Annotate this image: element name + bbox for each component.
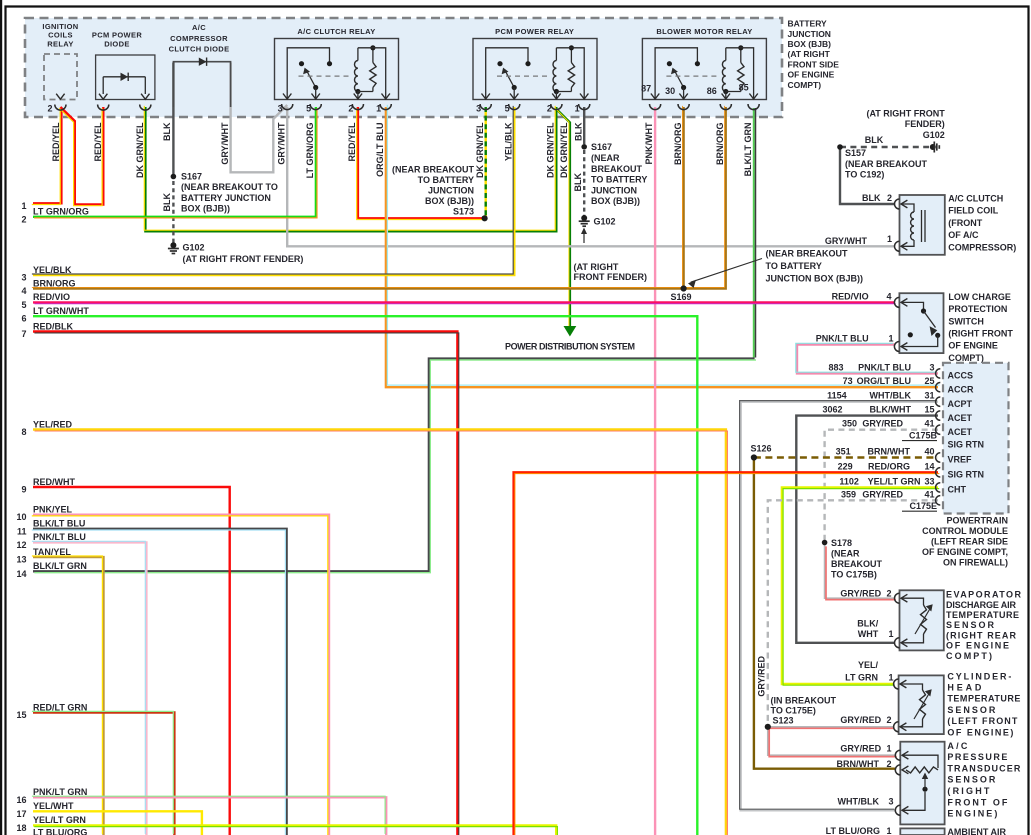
svg-text:TEMPERATURE: TEMPERATURE bbox=[947, 694, 1020, 704]
A/C clutch relay bbox=[275, 39, 399, 100]
svg-text:16: 16 bbox=[16, 795, 26, 805]
svg-text:A/C: A/C bbox=[947, 741, 968, 751]
wire: PNK/YEL row 10 down off page bbox=[33, 515, 329, 835]
svg-text:G102: G102 bbox=[923, 130, 945, 140]
svg-text:(IN BREAKOUT: (IN BREAKOUT bbox=[771, 695, 837, 705]
svg-text:YEL/LT GRN: YEL/LT GRN bbox=[868, 476, 921, 486]
svg-text:YEL/WHT: YEL/WHT bbox=[33, 801, 74, 811]
svg-text:ENGINE): ENGINE) bbox=[947, 809, 997, 819]
svg-text:1: 1 bbox=[888, 334, 893, 344]
svg-text:2: 2 bbox=[887, 193, 892, 203]
svg-text:3: 3 bbox=[278, 104, 283, 114]
wire: YEL/RED row 8 down off page bbox=[33, 430, 726, 835]
svg-text:C175E: C175E bbox=[909, 501, 937, 511]
svg-text:SIG RTN: SIG RTN bbox=[948, 470, 985, 480]
PCM power diode bbox=[96, 55, 155, 100]
wire: PNK/WHT blower relay pin 87 down off page bbox=[654, 107, 656, 835]
PCM pin row 3062 BLK/WHT pin 15 bbox=[936, 411, 941, 420]
svg-text:FIELD COIL: FIELD COIL bbox=[948, 206, 998, 216]
svg-text:13: 13 bbox=[16, 555, 26, 565]
svg-text:JUNCTION BOX (BJB)): JUNCTION BOX (BJB)) bbox=[766, 274, 864, 284]
svg-text:PNK/LT BLU: PNK/LT BLU bbox=[33, 532, 86, 542]
wire: YEL/BLK row 3 to PCM relay pin 5 bbox=[33, 107, 514, 275]
wire: YEL/LT GRN row 18 down off page bbox=[33, 825, 556, 835]
svg-text:HEAD: HEAD bbox=[947, 683, 982, 693]
svg-text:CYLINDER-: CYLINDER- bbox=[947, 671, 1011, 681]
svg-text:EVAPORATOR: EVAPORATOR bbox=[946, 590, 1022, 600]
svg-text:(NEAR: (NEAR bbox=[591, 153, 620, 163]
svg-text:ACET: ACET bbox=[948, 427, 973, 437]
svg-text:DISCHARGE AIR: DISCHARGE AIR bbox=[946, 600, 1017, 610]
wire: RED/YEL row 1 from ignition relay pin 2 bbox=[33, 108, 61, 203]
svg-text:PNK/YEL: PNK/YEL bbox=[33, 505, 73, 515]
PCM pin row 229 RED/ORG pin 14 bbox=[936, 468, 941, 477]
svg-text:COMPT): COMPT) bbox=[788, 80, 822, 90]
PCM pin row 350 GRY/RED pin 41 bbox=[936, 425, 941, 434]
splice S169 bbox=[681, 285, 687, 291]
svg-text:15: 15 bbox=[924, 405, 934, 415]
wire: BRN/WHT dashed S126 to PCM VREF bbox=[754, 456, 938, 458]
cylinder head temperature sensor box bbox=[899, 675, 944, 734]
PCM power relay bbox=[473, 39, 597, 100]
svg-text:ACCS: ACCS bbox=[948, 371, 974, 381]
svg-text:(AT RIGHT FRONT FENDER): (AT RIGHT FRONT FENDER) bbox=[183, 254, 304, 264]
svg-text:1154: 1154 bbox=[827, 391, 847, 401]
svg-text:31: 31 bbox=[924, 391, 934, 401]
svg-text:A/C: A/C bbox=[192, 23, 206, 32]
svg-text:DK GRN/YEL: DK GRN/YEL bbox=[475, 122, 485, 178]
svg-text:5: 5 bbox=[306, 104, 311, 114]
svg-text:TRANSDUCER: TRANSDUCER bbox=[947, 763, 1021, 773]
svg-text:TO BATTERY: TO BATTERY bbox=[591, 175, 647, 185]
svg-text:LT BLU/ORG: LT BLU/ORG bbox=[33, 828, 87, 835]
svg-text:(NEAR BREAKOUT: (NEAR BREAKOUT bbox=[392, 164, 475, 174]
svg-text:YEL/RED: YEL/RED bbox=[33, 419, 73, 429]
svg-text:ON FIREWALL): ON FIREWALL) bbox=[943, 558, 1008, 568]
svg-text:2: 2 bbox=[348, 104, 353, 114]
splice S157 bbox=[837, 144, 843, 150]
svg-text:1102: 1102 bbox=[839, 476, 859, 486]
wire: PNK/LT BLU switch pin 1 to PCM ACCS bbox=[797, 345, 938, 374]
svg-text:1: 1 bbox=[21, 201, 26, 211]
svg-text:GRY/RED: GRY/RED bbox=[757, 656, 767, 697]
svg-text:OF ENGINE: OF ENGINE bbox=[788, 70, 835, 80]
svg-text:SENSOR: SENSOR bbox=[947, 705, 996, 715]
svg-text:JUNCTION: JUNCTION bbox=[591, 185, 637, 195]
svg-text:1: 1 bbox=[887, 234, 892, 244]
svg-text:229: 229 bbox=[838, 461, 853, 471]
svg-text:BOX (BJB)): BOX (BJB)) bbox=[591, 196, 640, 206]
svg-text:RED/LT GRN: RED/LT GRN bbox=[33, 702, 87, 712]
svg-text:4: 4 bbox=[21, 286, 26, 296]
svg-text:CLUTCH DIODE: CLUTCH DIODE bbox=[169, 45, 230, 54]
wire: DK GRN/YEL diagonal from PCM relay pin 2 to power distribution arrow bbox=[556, 109, 570, 327]
svg-text:OF ENGINE: OF ENGINE bbox=[946, 641, 1009, 651]
svg-text:4: 4 bbox=[886, 291, 891, 301]
svg-text:2: 2 bbox=[886, 715, 891, 725]
svg-text:YEL/BLK: YEL/BLK bbox=[504, 122, 514, 161]
wire: RED/YEL A/C clutch relay pin 2 to S173 bbox=[358, 107, 485, 218]
svg-text:(NEAR: (NEAR bbox=[831, 549, 860, 559]
PCM pin row 73 ORG/LT BLU pin 25 bbox=[936, 383, 941, 392]
wire: BLK S157 to G102c (dashed) bbox=[840, 146, 929, 148]
svg-text:LT GRN/WHT: LT GRN/WHT bbox=[33, 306, 89, 316]
svg-text:S167: S167 bbox=[591, 142, 612, 152]
wire: LT GRN/WHT row 6 down off page bbox=[33, 316, 697, 835]
svg-text:GRY/RED: GRY/RED bbox=[840, 589, 881, 599]
svg-text:BLK: BLK bbox=[865, 135, 884, 145]
svg-text:ACCR: ACCR bbox=[948, 384, 974, 394]
svg-text:IGNITION: IGNITION bbox=[42, 22, 78, 31]
svg-text:PCM POWER RELAY: PCM POWER RELAY bbox=[495, 27, 574, 36]
wire: GRY/WHT A/C clutch relay pin 3 to A/C clutch field coil pin 1 bbox=[287, 107, 894, 246]
wire: DK GRN/YEL PCM diode to PCM power relay pin 2 bbox=[145, 107, 556, 231]
svg-text:15: 15 bbox=[16, 710, 26, 720]
wire: BLK PCM relay pin 1 to S167b and G102b bbox=[583, 107, 585, 144]
svg-text:TEMPERATURE: TEMPERATURE bbox=[946, 610, 1019, 620]
svg-text:CHT: CHT bbox=[948, 485, 967, 495]
svg-text:WHT: WHT bbox=[858, 629, 879, 639]
svg-text:BLK: BLK bbox=[862, 193, 881, 203]
wire: PNK/LT BLU row 12 down off page bbox=[33, 542, 146, 835]
svg-text:DIODE: DIODE bbox=[104, 39, 130, 48]
svg-text:BLK: BLK bbox=[573, 173, 583, 192]
PCM pin row 351 BRN/WHT pin 40 bbox=[936, 453, 941, 462]
splice S167 (PCM relay pin1) bbox=[581, 144, 587, 150]
svg-text:TO C192): TO C192) bbox=[845, 170, 884, 180]
wire: GRY/RED dashed PCM pin41 to S123 (C175E) bbox=[768, 500, 938, 724]
svg-text:BREAKOUT: BREAKOUT bbox=[831, 559, 883, 569]
svg-text:RED/YEL: RED/YEL bbox=[93, 122, 103, 162]
ground G102 (clutch diode) bbox=[170, 242, 176, 248]
svg-text:73: 73 bbox=[843, 376, 853, 386]
svg-text:S173: S173 bbox=[453, 207, 474, 217]
svg-text:TO BATTERY: TO BATTERY bbox=[418, 175, 474, 185]
svg-text:YEL/: YEL/ bbox=[858, 660, 879, 670]
svg-text:(AT RIGHT: (AT RIGHT bbox=[788, 49, 831, 59]
ignition coils relay (dashed box) bbox=[44, 54, 77, 100]
ground G102 (right front fender) bbox=[930, 144, 936, 150]
svg-text:BOX (BJB)): BOX (BJB)) bbox=[181, 203, 230, 213]
svg-text:RED/WHT: RED/WHT bbox=[33, 477, 75, 487]
svg-text:3062: 3062 bbox=[822, 405, 842, 415]
svg-text:WHT/BLK: WHT/BLK bbox=[870, 391, 912, 401]
svg-text:SIG RTN: SIG RTN bbox=[948, 440, 985, 450]
PCM pin row 1154 WHT/BLK pin 31 bbox=[936, 397, 941, 406]
svg-text:(NEAR BREAKOUT: (NEAR BREAKOUT bbox=[766, 249, 849, 259]
svg-text:BLK: BLK bbox=[574, 122, 584, 141]
svg-text:OF ENGINE COMPT,: OF ENGINE COMPT, bbox=[922, 547, 1008, 557]
svg-text:G102: G102 bbox=[594, 216, 616, 226]
svg-text:(RIGHT REAR: (RIGHT REAR bbox=[946, 630, 1017, 640]
svg-text:BRN/WHT: BRN/WHT bbox=[868, 447, 911, 457]
wire: TAN/YEL row 13 down off page bbox=[33, 557, 104, 835]
svg-text:BLK/LT GRN: BLK/LT GRN bbox=[33, 561, 87, 571]
svg-text:12: 12 bbox=[16, 540, 26, 550]
svg-text:(AT RIGHT FRONT: (AT RIGHT FRONT bbox=[866, 108, 945, 118]
svg-text:2: 2 bbox=[21, 214, 26, 224]
svg-text:LT GRN/ORG: LT GRN/ORG bbox=[33, 207, 89, 217]
svg-text:10: 10 bbox=[16, 512, 26, 522]
svg-text:6: 6 bbox=[21, 314, 26, 324]
svg-text:DK GRN/YEL: DK GRN/YEL bbox=[135, 122, 145, 178]
svg-text:BLK/LT GRN: BLK/LT GRN bbox=[743, 123, 753, 177]
svg-text:RED/YEL: RED/YEL bbox=[51, 122, 61, 162]
A/C clutch field coil box bbox=[900, 195, 945, 255]
wire: LT GRN/ORG row 2 to A/C clutch relay pin 5 bbox=[33, 107, 316, 217]
svg-text:RED/VIO: RED/VIO bbox=[832, 291, 869, 301]
wire: BLK/LT GRN blower pin 85 vertical bbox=[753, 108, 755, 358]
svg-text:BLK: BLK bbox=[162, 193, 172, 212]
svg-text:PNK/LT GRN: PNK/LT GRN bbox=[33, 787, 87, 797]
svg-text:POWERTRAIN: POWERTRAIN bbox=[947, 516, 1009, 526]
svg-text:BRN/ORG: BRN/ORG bbox=[715, 123, 725, 166]
svg-text:359: 359 bbox=[841, 489, 856, 499]
svg-text:7: 7 bbox=[21, 329, 26, 339]
svg-text:LT BLU/ORG: LT BLU/ORG bbox=[826, 826, 880, 835]
svg-text:ACPT: ACPT bbox=[948, 399, 973, 409]
svg-text:GRY/RED: GRY/RED bbox=[862, 419, 903, 429]
wire: GRY/RED dashed PCM pin41 to S178 (C175B) bbox=[825, 430, 938, 540]
wire: DK GRN/YEL dashed PCM relay pin 3 to S173 bbox=[485, 107, 487, 216]
svg-text:(FRONT: (FRONT bbox=[948, 218, 982, 228]
wire: RED/WHT row 9 down off page bbox=[33, 487, 230, 835]
svg-text:3: 3 bbox=[888, 797, 893, 807]
blower motor relay bbox=[642, 39, 766, 100]
svg-text:RELAY: RELAY bbox=[47, 39, 73, 48]
PCM pin row 359 GRY/RED pin 41 bbox=[936, 496, 941, 505]
svg-text:BLOWER MOTOR RELAY: BLOWER MOTOR RELAY bbox=[656, 27, 752, 36]
svg-text:CONTROL MODULE: CONTROL MODULE bbox=[922, 526, 1008, 536]
svg-text:OF A/C: OF A/C bbox=[948, 230, 979, 240]
svg-text:COMPRESSOR): COMPRESSOR) bbox=[948, 242, 1016, 252]
svg-text:41: 41 bbox=[924, 419, 934, 429]
svg-text:RED/VIO: RED/VIO bbox=[33, 292, 70, 302]
svg-text:BLK/: BLK/ bbox=[857, 618, 878, 628]
svg-text:S126: S126 bbox=[751, 443, 772, 453]
svg-text:14: 14 bbox=[16, 569, 26, 579]
svg-text:OF ENGINE: OF ENGINE bbox=[948, 341, 998, 351]
svg-text:YEL/LT GRN: YEL/LT GRN bbox=[33, 815, 86, 825]
svg-text:BRN/ORG: BRN/ORG bbox=[33, 278, 76, 288]
svg-text:FRONT OF: FRONT OF bbox=[947, 797, 1008, 807]
svg-text:(RIGHT: (RIGHT bbox=[947, 786, 990, 796]
svg-text:8: 8 bbox=[21, 427, 26, 437]
svg-text:PNK/LT BLU: PNK/LT BLU bbox=[816, 334, 869, 344]
A/C compressor clutch diode bbox=[173, 62, 230, 107]
wire: WHT/BLK PCM ACPT to A/C pressure transducer pin 3 bbox=[741, 402, 938, 811]
A/C pressure transducer sensor box bbox=[900, 742, 944, 825]
svg-text:2: 2 bbox=[886, 589, 891, 599]
splice S173 bbox=[482, 215, 488, 221]
wire: BRN/ORG row 4 to S169 bbox=[33, 287, 684, 289]
svg-text:1: 1 bbox=[886, 743, 891, 753]
wire: BRN/WHT S126 to A/C pressure transducer pin 2 bbox=[754, 458, 895, 769]
svg-text:TO BATTERY: TO BATTERY bbox=[766, 261, 822, 271]
svg-text:87: 87 bbox=[641, 84, 651, 94]
svg-text:RED/BLK: RED/BLK bbox=[33, 321, 73, 331]
svg-text:BLK/WHT: BLK/WHT bbox=[870, 405, 912, 415]
svg-text:BOX (BJB)): BOX (BJB)) bbox=[425, 196, 474, 206]
svg-text:FRONT FENDER): FRONT FENDER) bbox=[574, 272, 648, 282]
svg-text:3: 3 bbox=[476, 104, 481, 114]
svg-text:FRONT SIDE: FRONT SIDE bbox=[788, 59, 840, 69]
wire: GRY/RED S123 to cylinder head temp pin 2 bbox=[768, 726, 894, 728]
svg-text:G102: G102 bbox=[183, 243, 205, 253]
svg-text:(NEAR BREAKOUT: (NEAR BREAKOUT bbox=[845, 159, 928, 169]
svg-text:2: 2 bbox=[547, 104, 552, 114]
PCM pin row 1102 YEL/LT GRN pin 33 bbox=[936, 483, 941, 492]
wire: RED/VIO row 5 to low charge protection switch pin 4 bbox=[33, 301, 894, 303]
svg-text:14: 14 bbox=[924, 461, 934, 471]
wire: RED/LT GRN row 15 down off page bbox=[33, 713, 174, 835]
svg-text:BRN/WHT: BRN/WHT bbox=[837, 759, 880, 769]
svg-text:17: 17 bbox=[16, 809, 26, 819]
svg-text:2: 2 bbox=[47, 104, 52, 114]
wire: RED/ORG PCM SIG RTN down off page bbox=[514, 472, 938, 835]
svg-text:JUNCTION: JUNCTION bbox=[428, 186, 474, 196]
svg-text:BATTERY JUNCTION: BATTERY JUNCTION bbox=[181, 193, 271, 203]
svg-text:TO C175E): TO C175E) bbox=[771, 706, 816, 716]
svg-text:AMBIENT AIR: AMBIENT AIR bbox=[947, 827, 1006, 835]
svg-text:5: 5 bbox=[21, 300, 26, 310]
svg-text:RED/ORG: RED/ORG bbox=[868, 461, 910, 471]
svg-text:11: 11 bbox=[17, 526, 27, 536]
svg-text:LT GRN: LT GRN bbox=[845, 673, 878, 683]
wire: RED/BLK row 7 down off page bbox=[33, 332, 457, 835]
svg-text:(NEAR BREAKOUT TO: (NEAR BREAKOUT TO bbox=[181, 182, 278, 192]
svg-text:GRY/RED: GRY/RED bbox=[862, 489, 903, 499]
svg-text:S169: S169 bbox=[671, 292, 692, 302]
wire: BLK/LT BLU row 11 down off page bbox=[33, 529, 287, 835]
svg-text:VREF: VREF bbox=[948, 455, 973, 465]
svg-text:BATTERY: BATTERY bbox=[788, 19, 828, 29]
svg-text:86: 86 bbox=[707, 86, 717, 96]
wire: BRN/ORG blower pin 30 to S169 bbox=[682, 107, 684, 289]
wire: GRY/RED S123 to A/C pressure transducer pin 1 bbox=[768, 727, 896, 755]
svg-text:33: 33 bbox=[924, 476, 934, 486]
wire: YEL/LT GRN PCM CHT to cylinder head temp sensor pin 1 bbox=[782, 487, 938, 684]
svg-text:(LEFT REAR SIDE: (LEFT REAR SIDE bbox=[931, 537, 1008, 547]
svg-text:(RIGHT FRONT: (RIGHT FRONT bbox=[948, 329, 1013, 339]
svg-text:350: 350 bbox=[842, 419, 857, 429]
svg-text:LT GRN/ORG: LT GRN/ORG bbox=[305, 123, 315, 179]
wire: RED/YEL ignition pin2 branch to PCM power diode pin bbox=[60, 107, 103, 205]
svg-text:40: 40 bbox=[924, 447, 934, 457]
svg-text:BOX (BJB): BOX (BJB) bbox=[788, 39, 832, 49]
svg-text:BRN/ORG: BRN/ORG bbox=[673, 123, 683, 166]
svg-text:ACET: ACET bbox=[948, 413, 973, 423]
splice S126 bbox=[751, 454, 757, 460]
svg-text:DK GRN/YEL: DK GRN/YEL bbox=[559, 122, 569, 178]
svg-text:PNK/LT BLU: PNK/LT BLU bbox=[858, 362, 911, 372]
page frame bbox=[0, 0, 2, 835]
svg-text:(LEFT FRONT: (LEFT FRONT bbox=[947, 716, 1018, 726]
svg-text:351: 351 bbox=[836, 447, 851, 457]
svg-text:LOW CHARGE: LOW CHARGE bbox=[948, 292, 1011, 302]
svg-text:TO C175B): TO C175B) bbox=[831, 569, 877, 579]
svg-text:3: 3 bbox=[21, 273, 26, 283]
svg-text:85: 85 bbox=[739, 83, 749, 93]
svg-text:S123: S123 bbox=[773, 716, 794, 726]
annotation arrow to G102 bbox=[583, 232, 585, 244]
svg-text:41: 41 bbox=[924, 489, 934, 499]
svg-text:883: 883 bbox=[828, 362, 843, 372]
svg-text:GRY/WHT: GRY/WHT bbox=[220, 122, 230, 165]
svg-text:1: 1 bbox=[575, 104, 580, 114]
svg-text:PNK/WHT: PNK/WHT bbox=[644, 122, 654, 164]
wire: GRY/RED S178 to evaporator pin 2 bbox=[825, 545, 895, 598]
svg-text:BLK/LT BLU: BLK/LT BLU bbox=[33, 519, 85, 529]
svg-text:FENDER): FENDER) bbox=[905, 119, 945, 129]
wire: BLK S157 to A/C clutch field coil pin 2 bbox=[840, 147, 895, 204]
svg-text:(AT RIGHT: (AT RIGHT bbox=[574, 262, 619, 272]
svg-text:GRY/RED: GRY/RED bbox=[840, 743, 881, 753]
svg-text:JUNCTION: JUNCTION bbox=[788, 29, 831, 39]
svg-text:BLK: BLK bbox=[162, 122, 172, 141]
svg-text:S178: S178 bbox=[831, 538, 852, 548]
wire: BRN/ORG blower pin 86 to S169 bbox=[684, 107, 726, 289]
wire: PNK/LT GRN row 16 down off page bbox=[33, 797, 386, 835]
svg-text:3: 3 bbox=[929, 362, 934, 372]
svg-text:SENSOR: SENSOR bbox=[946, 620, 995, 630]
svg-text:A/C CLUTCH RELAY: A/C CLUTCH RELAY bbox=[297, 27, 375, 36]
splice S178 bbox=[822, 540, 828, 546]
svg-text:1: 1 bbox=[886, 826, 891, 835]
svg-text:A/C CLUTCH: A/C CLUTCH bbox=[948, 194, 1003, 204]
wire: YEL/WHT row 17 down off page bbox=[33, 811, 202, 835]
svg-text:ORG/LT BLU: ORG/LT BLU bbox=[857, 376, 911, 386]
low charge protection switch box bbox=[899, 293, 943, 353]
svg-text:PCM POWER: PCM POWER bbox=[92, 31, 142, 40]
svg-text:S167: S167 bbox=[181, 171, 202, 181]
PCM pin row 883 PNK/LT BLU pin 3 bbox=[936, 369, 941, 378]
svg-text:C175B: C175B bbox=[909, 431, 938, 441]
svg-text:1: 1 bbox=[376, 104, 381, 114]
svg-text:COILS: COILS bbox=[48, 31, 73, 40]
svg-text:COMPRESSOR: COMPRESSOR bbox=[170, 34, 228, 43]
svg-text:S157: S157 bbox=[845, 148, 866, 158]
svg-text:BREAKOUT: BREAKOUT bbox=[591, 164, 643, 174]
svg-text:SWITCH: SWITCH bbox=[948, 316, 984, 326]
ambient air temperature sensor (clipped at page bottom) bbox=[900, 828, 944, 835]
svg-text:9: 9 bbox=[21, 485, 26, 495]
svg-text:OF ENGINE): OF ENGINE) bbox=[947, 727, 1013, 737]
svg-text:DK GRN/YEL: DK GRN/YEL bbox=[546, 122, 556, 178]
splice S167 (clutch diode) bbox=[171, 174, 177, 180]
svg-text:COMPT): COMPT) bbox=[948, 353, 984, 363]
svg-text:2: 2 bbox=[886, 759, 891, 769]
wire: BLK clutch diode left leg to S167/G102 bbox=[172, 63, 174, 178]
svg-text:1: 1 bbox=[888, 673, 893, 683]
svg-text:5: 5 bbox=[505, 104, 510, 114]
evaporator sensor box bbox=[900, 590, 944, 650]
PCM connector block bbox=[943, 363, 1009, 514]
svg-text:POWER DISTRIBUTION SYSTEM: POWER DISTRIBUTION SYSTEM bbox=[505, 342, 635, 352]
splice S123 bbox=[765, 724, 771, 730]
svg-text:PROTECTION: PROTECTION bbox=[948, 304, 1007, 314]
svg-text:25: 25 bbox=[924, 376, 934, 386]
arrow: power distribution system bbox=[564, 326, 577, 337]
svg-text:RED/YEL: RED/YEL bbox=[347, 122, 357, 162]
svg-text:GRY/RED: GRY/RED bbox=[840, 715, 881, 725]
svg-text:PRESSURE: PRESSURE bbox=[947, 752, 1007, 762]
svg-text:SENSOR: SENSOR bbox=[947, 775, 996, 785]
svg-text:WHT/BLK: WHT/BLK bbox=[838, 797, 880, 807]
svg-text:GRY/WHT: GRY/WHT bbox=[825, 236, 868, 246]
svg-text:1: 1 bbox=[888, 629, 893, 639]
wire: BLK/LT GRN run to row 14 bbox=[33, 359, 755, 572]
